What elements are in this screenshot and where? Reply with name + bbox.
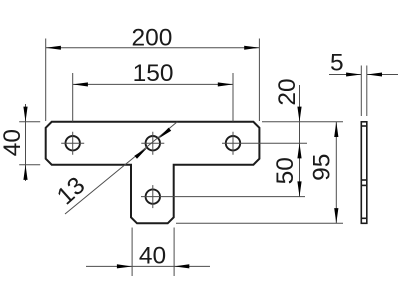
dim 50 arrow bottom (pointing down)	[297, 181, 301, 196]
dim 40 bottom: arrow left (outside, pointing right)	[117, 264, 132, 268]
dim 5: arrow left (pointing right)	[346, 73, 361, 77]
dim 200 arrow right	[244, 46, 259, 50]
side view chamfer line top	[361, 125, 367, 127]
dim 40 left: extension line top (plate top edge)	[19, 121, 40, 123]
dim 20 arrow (outside above, pointing down)	[297, 107, 301, 122]
dim 40 bottom: arrow right (outside, pointing left)	[174, 264, 189, 268]
hole H2 crosshair	[141, 132, 164, 155]
dim 95 arrow top (pointing up)	[334, 122, 338, 137]
dim 150 extension line right (above right hole)	[232, 73, 234, 122]
dim 40 left: arrow top (outside, pointing down)	[23, 107, 27, 122]
hole H3 right (circle)	[226, 136, 240, 150]
dim 200 extension line left	[45, 39, 47, 122]
dim 40 bottom: dimension line	[86, 265, 210, 267]
dim 200 extension line right	[258, 39, 260, 122]
dim 150 arrow left	[73, 82, 88, 86]
dim 150 arrow right	[218, 82, 233, 86]
dim 95 dimension line	[335, 122, 337, 224]
dim 5: extension line left	[360, 66, 362, 117]
dim 200 line	[46, 47, 260, 49]
hole H4 centerline extended right (serves 50 dim)	[141, 196, 305, 198]
dim 13 arrow upper-right (pointing at hole)	[158, 128, 171, 139]
svg-text:40: 40	[0, 129, 26, 156]
svg-text:20: 20	[274, 78, 301, 105]
dim 5: dimension line right part	[367, 74, 398, 76]
dim 40 bottom: extension line left (stem left edge)	[131, 228, 133, 277]
dim 13 arrow lower-left (pointing at hole)	[134, 148, 147, 159]
dim 150 line	[73, 83, 233, 85]
dim 20/50 shared dimension line	[299, 85, 301, 197]
dim 200 arrow left	[46, 46, 61, 50]
svg-text:150: 150	[133, 60, 174, 87]
svg-text:200: 200	[131, 24, 172, 51]
side view chamfer line bottom	[361, 217, 367, 219]
dim 40 left: arrow bottom (outside, pointing up)	[23, 165, 27, 180]
dim 40 left: extension line bottom (bar bottom edge)	[19, 164, 40, 166]
hole H4 crosshair vertical	[152, 185, 154, 208]
dim 13 leader line through center hole	[65, 122, 177, 214]
hole H1 left (circle)	[66, 136, 80, 150]
hole H3 crosshair vertical	[232, 132, 234, 155]
dim 40 bottom: extension line right (stem right edge)	[173, 228, 175, 277]
hole H2 center (circle)	[146, 136, 160, 150]
svg-text:5: 5	[330, 49, 344, 76]
svg-text:50: 50	[272, 157, 299, 184]
dim 150 extension line left (above left hole)	[72, 73, 74, 122]
svg-text:95: 95	[309, 154, 336, 181]
dim 40 left: dimension line	[25, 104, 27, 181]
dim 5: dimension line left part	[329, 74, 361, 76]
side view plate edge (right)	[361, 122, 367, 224]
svg-text:13: 13	[52, 172, 90, 210]
dim 5: extension line right	[366, 66, 368, 117]
svg-text:40: 40	[139, 243, 166, 270]
dim 95 arrow bottom (pointing down)	[334, 208, 338, 223]
dim 5: arrow right (pointing left)	[367, 73, 382, 77]
hole H1 crosshair	[61, 132, 84, 155]
right side: top edge extension line	[262, 121, 343, 123]
dim 20/50 arrow at hole line (pointing up)	[297, 143, 301, 158]
side view joint line upper-middle	[361, 179, 367, 181]
right side: stem bottom extension line	[176, 222, 343, 224]
hole H3 centerline extended right (serves 20/50 dims)	[222, 142, 307, 144]
T-plate outline (front view)	[46, 122, 260, 224]
hole H4 stem (circle)	[146, 189, 160, 203]
side view joint line lower-middle	[361, 184, 367, 186]
